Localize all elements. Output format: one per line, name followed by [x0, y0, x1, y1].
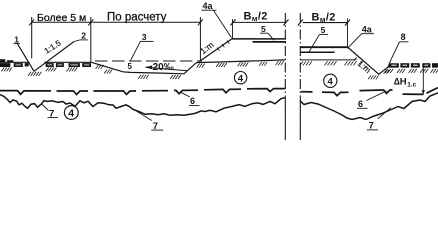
- svg-text:4: 4: [238, 73, 244, 84]
- svg-text:6: 6: [358, 99, 363, 109]
- svg-text:20‰: 20‰: [153, 62, 174, 73]
- svg-text:4: 4: [68, 108, 74, 120]
- svg-text:3: 3: [142, 32, 147, 42]
- svg-text:5: 5: [321, 25, 326, 35]
- svg-text:1: 1: [14, 34, 19, 44]
- svg-text:4а: 4а: [362, 25, 373, 35]
- svg-text:4: 4: [328, 77, 334, 88]
- svg-text:8: 8: [401, 32, 406, 42]
- svg-text:5: 5: [128, 62, 133, 71]
- svg-text:2: 2: [81, 31, 86, 41]
- svg-text:4а: 4а: [203, 1, 214, 11]
- svg-text:1.с: 1.с: [407, 81, 416, 88]
- svg-text:5: 5: [261, 24, 266, 34]
- svg-text:По расчету: По расчету: [107, 12, 167, 24]
- svg-text:∆Н: ∆Н: [394, 77, 407, 88]
- svg-text:6: 6: [190, 96, 195, 106]
- svg-text:Более 5 м: Более 5 м: [37, 12, 86, 24]
